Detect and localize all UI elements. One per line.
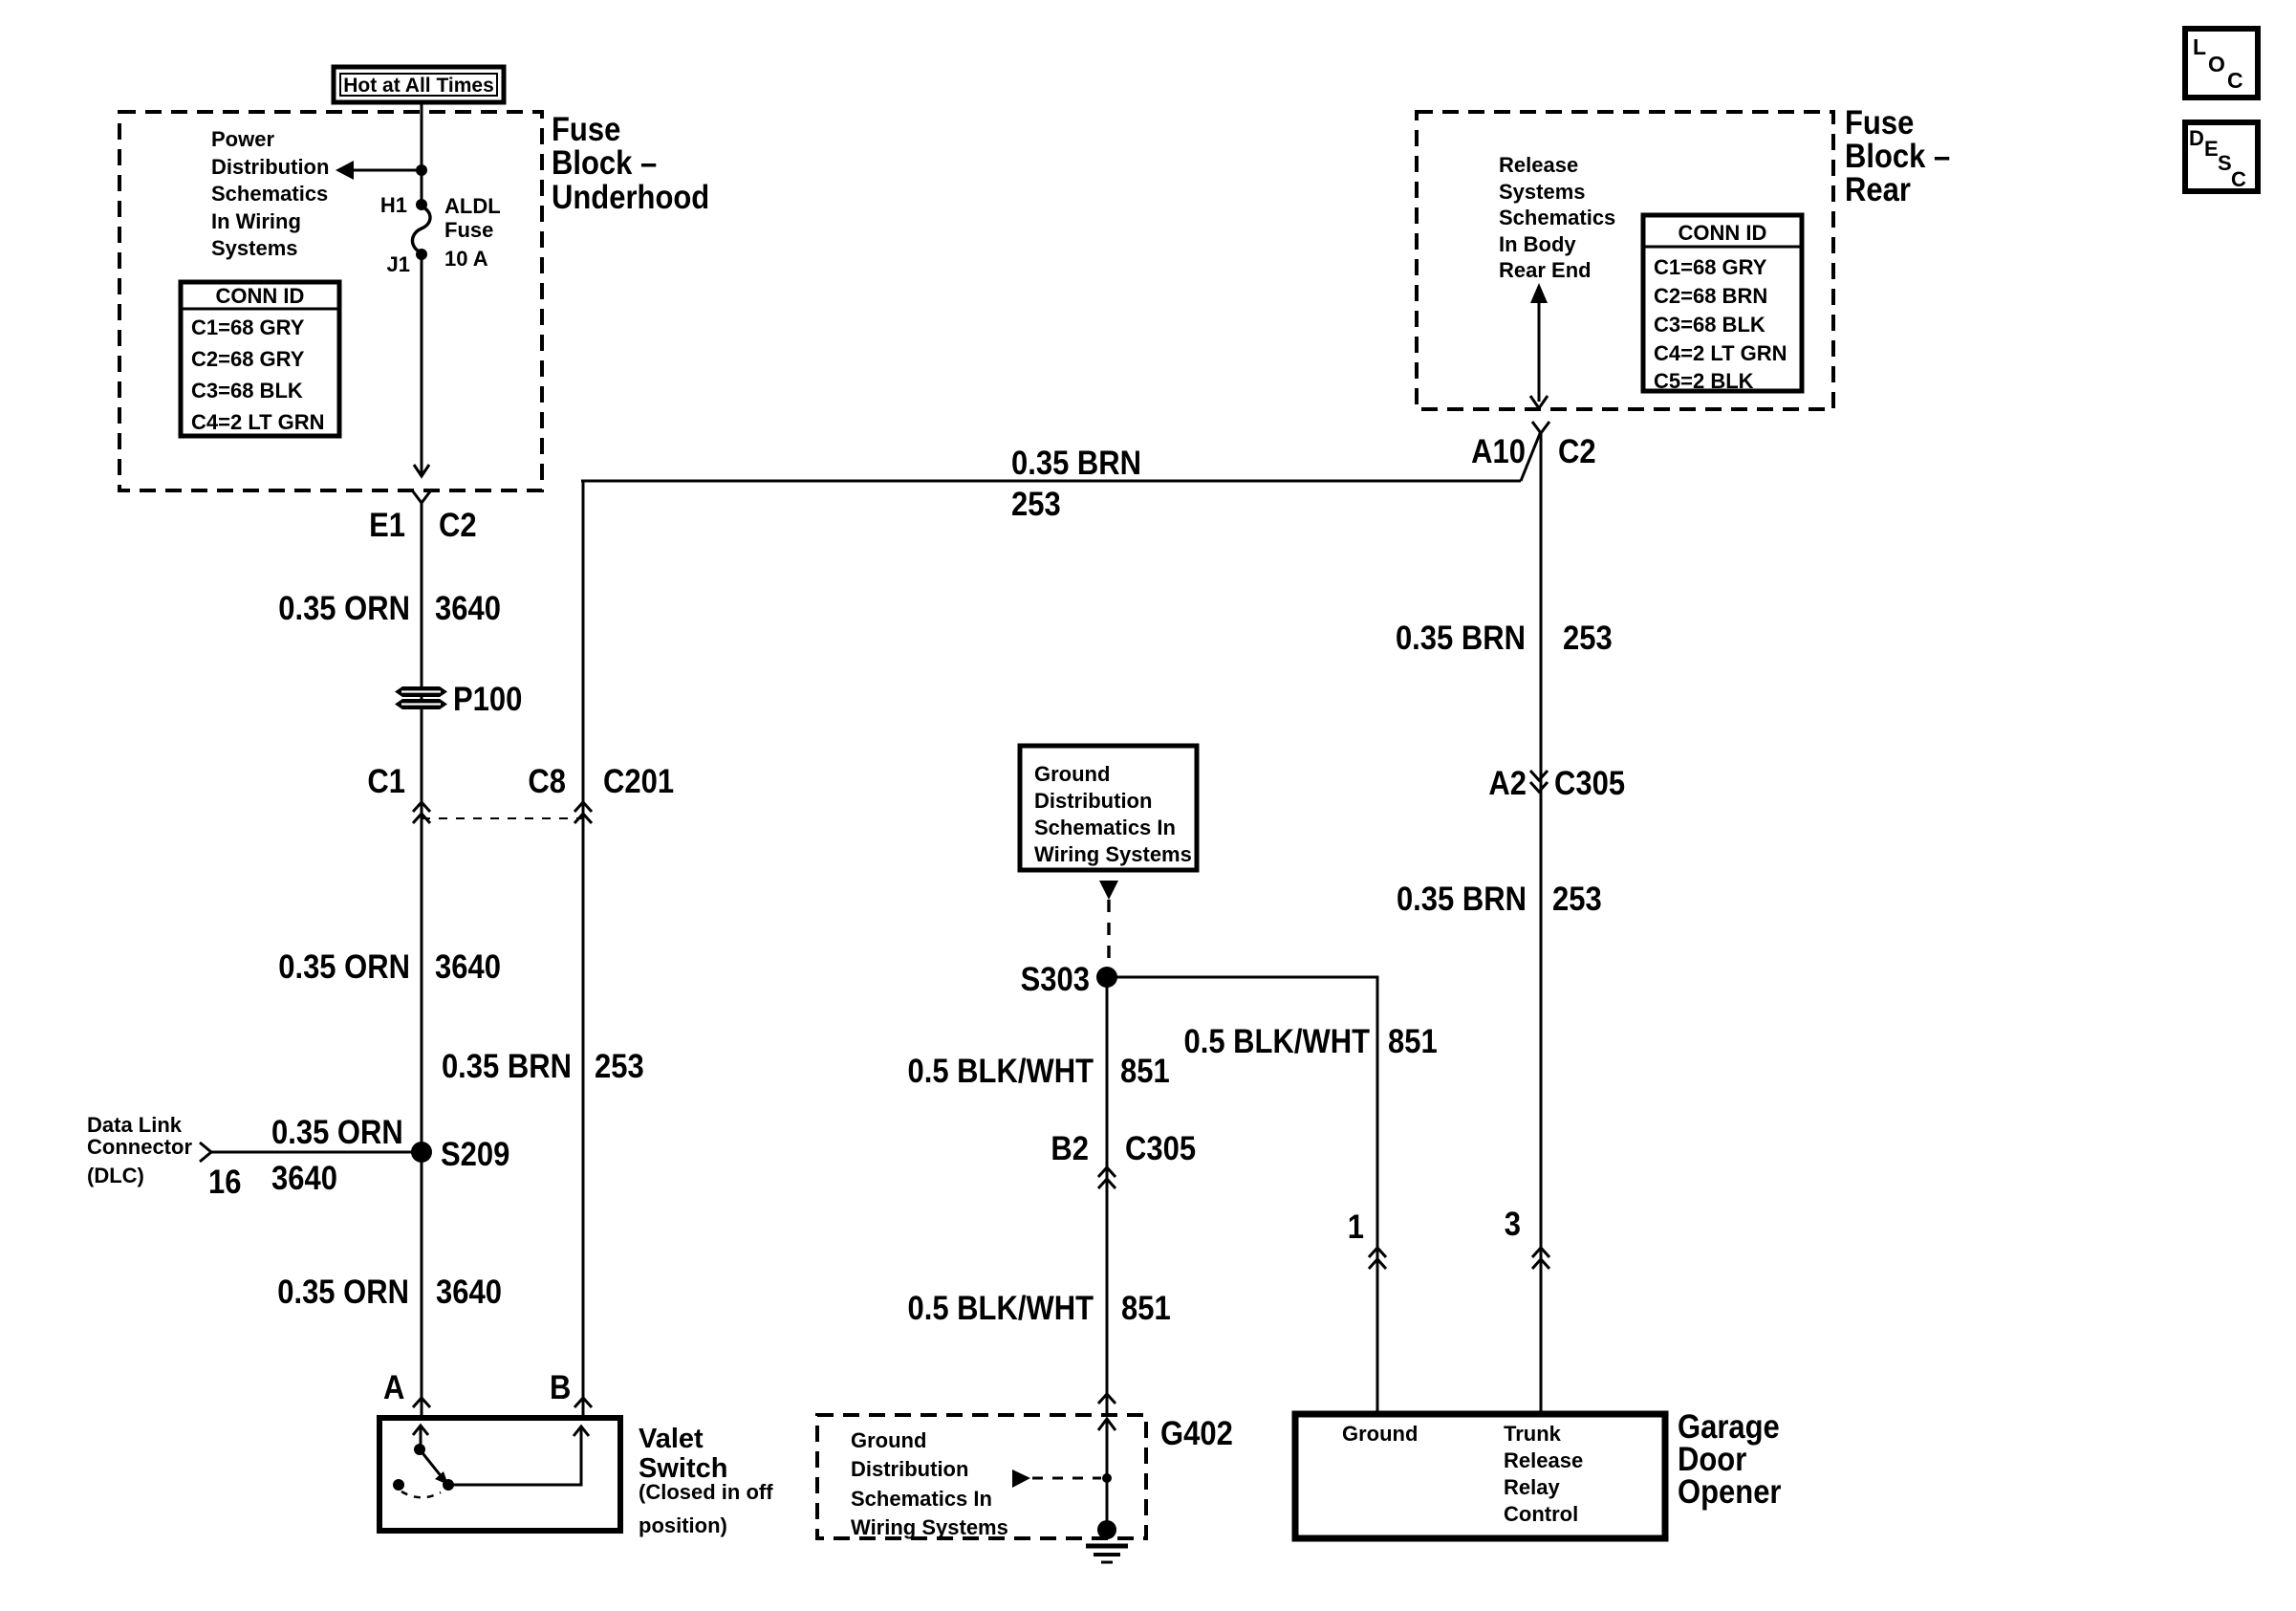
svg-text:253: 253	[595, 1048, 644, 1085]
svg-text:J1: J1	[387, 252, 410, 276]
Hot at All Times box	[334, 67, 504, 102]
svg-text:C1=68 GRY: C1=68 GRY	[1654, 255, 1767, 279]
LOC index box	[2185, 29, 2258, 98]
pin chevron A	[413, 1398, 430, 1407]
label Valet Switch	[639, 1424, 773, 1537]
junction dot on feed wire	[416, 164, 427, 176]
wire arrow to Power Distribution reference	[351, 169, 422, 172]
pass-through grommet P100	[395, 681, 522, 718]
svg-text:Connector: Connector	[87, 1135, 192, 1159]
svg-text:A: A	[383, 1369, 404, 1406]
fuse J1 terminal dot	[416, 249, 427, 260]
wire S303 to garage door opener pin 1	[1107, 977, 1377, 1414]
Ground Distribution reference box	[1020, 746, 1197, 870]
svg-text:851: 851	[1121, 1290, 1171, 1327]
svg-text:Systems: Systems	[1499, 180, 1586, 204]
label ALDL Fuse 10 A	[444, 194, 501, 271]
svg-text:10 A: 10 A	[444, 247, 488, 271]
svg-text:3640: 3640	[435, 948, 501, 986]
svg-text:C1: C1	[367, 763, 405, 800]
svg-text:0.35 BRN: 0.35 BRN	[1011, 445, 1141, 482]
dashed box Fuse Block Underhood	[119, 112, 542, 490]
diagonal into A10/C2 connector	[1521, 431, 1541, 481]
svg-text:Underhood: Underhood	[552, 179, 709, 216]
svg-text:H1: H1	[380, 193, 407, 217]
svg-text:C3=68 BLK: C3=68 BLK	[1654, 313, 1765, 337]
svg-text:3640: 3640	[436, 1274, 502, 1311]
svg-text:G402: G402	[1160, 1415, 1233, 1452]
DLC pin chevron	[200, 1143, 211, 1162]
svg-text:E1: E1	[369, 507, 405, 544]
ground G402 symbol	[1086, 1520, 1128, 1562]
branch wire (valet B leg) up to horizontal run	[582, 481, 585, 1418]
svg-text:Distribution: Distribution	[1034, 789, 1152, 813]
valet internal wire to B	[448, 1428, 581, 1485]
svg-text:C4=2 LT GRN: C4=2 LT GRN	[1654, 341, 1787, 365]
text Power Distribution Schematics In Wiring Systems	[211, 127, 329, 260]
svg-text:16: 16	[208, 1164, 241, 1201]
svg-text:C2=68 BRN: C2=68 BRN	[1654, 284, 1767, 308]
svg-text:Ground: Ground	[1034, 762, 1110, 786]
connector chevrons C8/C201 on branch wire	[574, 802, 592, 812]
svg-text:0.5 BLK/WHT: 0.5 BLK/WHT	[907, 1053, 1094, 1090]
label Fuse Block - Underhood	[552, 111, 709, 216]
svg-text:Rear: Rear	[1845, 171, 1911, 208]
svg-text:Distribution: Distribution	[211, 155, 329, 179]
wire from Hot at All Times down into fuse block	[421, 102, 423, 206]
svg-text:Power: Power	[211, 127, 274, 151]
svg-text:position): position)	[639, 1513, 727, 1537]
svg-text:Wiring Systems: Wiring Systems	[851, 1515, 1008, 1539]
svg-text:Data Link: Data Link	[87, 1113, 183, 1137]
solid arrow down from reference box	[1099, 881, 1118, 900]
svg-text:Fuse: Fuse	[444, 218, 493, 242]
svg-text:P100: P100	[453, 681, 522, 718]
svg-text:L: L	[2193, 34, 2206, 59]
svg-text:3640: 3640	[271, 1160, 337, 1197]
svg-text:Schematics In: Schematics In	[1034, 816, 1176, 839]
splice S209	[411, 1142, 432, 1163]
svg-text:3: 3	[1505, 1206, 1521, 1243]
svg-text:C2: C2	[439, 507, 477, 544]
svg-text:S303: S303	[1021, 961, 1090, 998]
svg-text:0.35 BRN: 0.35 BRN	[442, 1048, 572, 1085]
connector symbol A10/C2 below rear fuse block	[1532, 422, 1549, 433]
svg-text:B: B	[550, 1369, 571, 1406]
DESC index box	[2185, 122, 2258, 191]
svg-text:Rear End: Rear End	[1499, 258, 1592, 282]
svg-text:Trunk: Trunk	[1504, 1422, 1562, 1446]
dashed box Fuse Block Rear	[1417, 112, 1833, 409]
svg-text:Schematics: Schematics	[211, 182, 328, 206]
label 0.5 BLK/WHT 851 (pin1 leg)	[1183, 1023, 1437, 1060]
label Trunk Release Relay Control	[1504, 1422, 1583, 1526]
label Fuse Block - Rear	[1845, 104, 1950, 208]
svg-text:S: S	[2218, 151, 2232, 175]
valet switch: contact arrow up from pivot	[420, 1427, 422, 1448]
svg-text:1: 1	[1348, 1208, 1364, 1246]
dashed wire to S303	[1107, 900, 1110, 968]
splice S303	[1096, 967, 1117, 988]
svg-text:C8: C8	[528, 763, 566, 800]
dashed box Ground Distribution (bottom)	[817, 1415, 1146, 1538]
label 0.35 BRN 253 (lower right leg)	[1397, 881, 1602, 918]
junction dot on ground lead	[1102, 1473, 1112, 1483]
svg-text:(DLC): (DLC)	[87, 1164, 144, 1187]
svg-text:Ground: Ground	[851, 1428, 926, 1452]
CONN ID table (rear)	[1643, 215, 1802, 393]
pin 3 chevrons	[1532, 1248, 1549, 1257]
G402 chevron above ground box	[1098, 1394, 1116, 1404]
pin 1 chevrons	[1369, 1248, 1386, 1257]
svg-text:C2=68 GRY: C2=68 GRY	[191, 347, 305, 371]
wire label 0.35 ORN 3640 (third)	[277, 1274, 502, 1311]
svg-text:CONN ID: CONN ID	[1679, 221, 1767, 245]
internal double arrow in rear fuse block	[1530, 283, 1548, 408]
svg-text:C4=2 LT GRN: C4=2 LT GRN	[191, 410, 325, 434]
connector chevrons C1 on left wire	[413, 802, 430, 812]
svg-text:Schematics: Schematics	[1499, 206, 1615, 229]
svg-text:0.5 BLK/WHT: 0.5 BLK/WHT	[907, 1290, 1094, 1327]
svg-text:Relay: Relay	[1504, 1475, 1560, 1499]
svg-text:A2: A2	[1488, 765, 1527, 802]
pin chevron B	[574, 1398, 592, 1407]
svg-text:CONN ID: CONN ID	[216, 284, 305, 308]
wire label 0.35 BRN 253 (valet B leg)	[442, 1048, 644, 1085]
Valet Switch box	[379, 1418, 620, 1531]
valet blade with arrowhead	[420, 1449, 443, 1478]
svg-text:E: E	[2204, 137, 2219, 161]
svg-text:C201: C201	[603, 763, 674, 800]
svg-text:C: C	[2227, 68, 2243, 93]
svg-text:Ground: Ground	[1342, 1422, 1418, 1446]
dashed connector tie line C201	[422, 817, 583, 819]
svg-text:Opener: Opener	[1678, 1473, 1781, 1511]
svg-text:0.35 ORN: 0.35 ORN	[271, 1114, 403, 1151]
svg-text:851: 851	[1388, 1023, 1438, 1060]
svg-text:0.35 BRN: 0.35 BRN	[1397, 881, 1527, 918]
label 0.5 BLK/WHT 851 (upper G402 leg)	[907, 1053, 1169, 1090]
valet pivot dot	[414, 1444, 425, 1455]
svg-text:C5=2 BLK: C5=2 BLK	[1654, 369, 1754, 393]
wire S303 down to G402	[1106, 977, 1109, 1415]
svg-text:253: 253	[1563, 620, 1613, 657]
svg-text:C305: C305	[1554, 765, 1625, 802]
svg-text:S209: S209	[441, 1136, 509, 1173]
svg-text:C1=68 GRY: C1=68 GRY	[191, 316, 305, 339]
svg-text:C3=68 BLK: C3=68 BLK	[191, 379, 303, 403]
svg-text:Wiring Systems: Wiring Systems	[1034, 842, 1192, 866]
ground lead inside box with up arrowhead	[1106, 1419, 1109, 1524]
svg-text:Schematics In: Schematics In	[851, 1487, 992, 1511]
svg-text:Release: Release	[1504, 1448, 1583, 1472]
svg-text:C2: C2	[1558, 433, 1596, 470]
connector B2/C305	[1051, 1130, 1196, 1188]
label 0.35 BRN 253 (upper right leg)	[1396, 620, 1613, 657]
connector A2/C305	[1488, 765, 1625, 802]
svg-text:0.35 ORN: 0.35 ORN	[278, 948, 410, 986]
svg-text:Fuse: Fuse	[552, 111, 620, 148]
svg-text:Hot at All Times: Hot at All Times	[343, 75, 494, 97]
wire from A10/C2 down to garage door opener pin 3	[1540, 433, 1543, 1414]
wire from DLC to S209	[211, 1151, 422, 1154]
svg-text:Release: Release	[1499, 153, 1578, 177]
CONN ID table (underhood)	[181, 282, 339, 436]
svg-text:253: 253	[1011, 486, 1061, 523]
svg-text:C: C	[2231, 167, 2246, 191]
svg-text:Block –: Block –	[552, 144, 657, 182]
svg-text:Control: Control	[1504, 1502, 1578, 1526]
label 0.5 BLK/WHT 851 (lower G402 leg)	[907, 1290, 1170, 1327]
svg-text:ALDL: ALDL	[444, 194, 501, 218]
svg-text:0.35 ORN: 0.35 ORN	[277, 1274, 409, 1311]
svg-text:C305: C305	[1125, 1130, 1196, 1167]
svg-text:0.35 ORN: 0.35 ORN	[278, 590, 410, 627]
svg-text:Block –: Block –	[1845, 138, 1950, 175]
open arrowhead down at dashed box bottom	[414, 465, 429, 476]
svg-text:Distribution: Distribution	[851, 1457, 968, 1481]
connector symbol E1/C2 below fuse block	[413, 491, 430, 503]
svg-text:Systems: Systems	[211, 236, 298, 260]
valet blade end dot	[443, 1479, 454, 1491]
svg-text:3640: 3640	[435, 590, 501, 627]
svg-text:B2: B2	[1051, 1130, 1089, 1167]
svg-text:In Body: In Body	[1499, 232, 1576, 256]
Garage Door Opener box	[1295, 1414, 1665, 1538]
horizontal wire 0.35 BRN 253 to fuse block rear	[581, 480, 1521, 483]
fuse H1 terminal dot	[416, 199, 427, 210]
svg-text:Valet: Valet	[639, 1424, 704, 1454]
svg-text:851: 851	[1120, 1053, 1170, 1090]
Data Link Connector text	[87, 1113, 192, 1187]
svg-text:O: O	[2208, 52, 2225, 76]
svg-text:(Closed in off: (Closed in off	[639, 1480, 773, 1504]
svg-text:In Wiring: In Wiring	[211, 209, 301, 233]
svg-text:A10: A10	[1471, 433, 1526, 470]
wire down from E1/C2 to valet switch pin A	[421, 503, 423, 1418]
dashed reference arrow to ground lead	[1012, 1469, 1030, 1488]
text in bottom ground box	[851, 1428, 1008, 1539]
label Garage Door Opener	[1678, 1408, 1781, 1511]
svg-text:Fuse: Fuse	[1845, 104, 1914, 142]
svg-text:0.5 BLK/WHT: 0.5 BLK/WHT	[1183, 1023, 1370, 1060]
wire label 0.35 ORN 3640	[278, 590, 501, 627]
wire label 0.35 ORN 3640 (second)	[278, 948, 501, 986]
svg-text:0.35 BRN: 0.35 BRN	[1396, 620, 1526, 657]
svg-text:D: D	[2189, 126, 2204, 150]
text Release Systems Schematics In Body Rear End	[1499, 153, 1615, 282]
svg-text:253: 253	[1552, 881, 1602, 918]
ALDL fuse element squiggle	[412, 207, 430, 252]
valet off-position dot	[393, 1479, 404, 1491]
valet travel dashed arc	[401, 1491, 441, 1497]
